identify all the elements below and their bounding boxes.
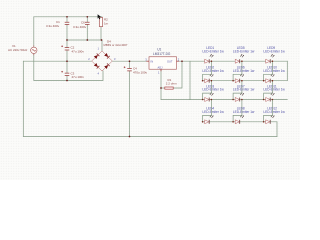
svg-text:ADJ: ADJ: [158, 65, 164, 69]
LED1: [202, 46, 224, 63]
wire ADJ column: [160, 71, 162, 100]
LED10: [263, 66, 285, 83]
wire C1 column: [66, 17, 68, 40]
junction dots: [66, 16, 183, 137]
capacitor C6: [85, 22, 90, 24]
bridge rectifier D4: [92, 51, 113, 71]
svg-text:MB6S or 4x1n4007: MB6S or 4x1n4007: [104, 43, 128, 47]
wire LED row2: [203, 80, 288, 82]
svg-text:LED-Emiter 1w: LED-Emiter 1w: [263, 49, 285, 53]
svg-text:LED-Emiter 1w: LED-Emiter 1w: [202, 110, 224, 114]
svg-text:3.3u 400v: 3.3u 400v: [46, 24, 60, 28]
wire C4 column: [129, 61, 131, 136]
op-amp U1 regulator LM317: [149, 57, 177, 69]
wire R1 left lead: [161, 87, 165, 89]
svg-text:LED-Emiter 1w: LED-Emiter 1w: [263, 88, 285, 92]
svg-text:LED-Emiter 1w: LED-Emiter 1w: [263, 69, 285, 73]
wire V1 bottom to bridge bottom: [34, 54, 103, 81]
diode D4 bottom-right: [104, 63, 110, 69]
LED5: [233, 46, 255, 63]
wire C6 column: [86, 17, 88, 40]
capacitor C3: [65, 73, 70, 75]
svg-text:LED-Emiter 1w: LED-Emiter 1w: [202, 88, 224, 92]
wire hook col2 row2-3: [232, 80, 242, 100]
wire bridge right to U1: [113, 60, 149, 62]
LED12: [263, 107, 285, 124]
capacitor C1: [65, 22, 70, 24]
wire R2 column: [100, 17, 102, 40]
resistor R2: [99, 18, 102, 27]
diode D4 bottom-left: [94, 63, 100, 69]
wire hook col3 row1-2: [263, 60, 273, 81]
svg-text:LED-Emiter 1w: LED-Emiter 1w: [233, 69, 255, 73]
svg-text:LED-Emiter 1w: LED-Emiter 1w: [233, 110, 255, 114]
LED3: [202, 84, 224, 101]
svg-text:3: 3: [114, 57, 116, 61]
diode D4 top-right: [104, 53, 110, 59]
LED6: [233, 66, 255, 83]
wire V1 top: [33, 17, 35, 47]
svg-text:LED-Emiter 1w: LED-Emiter 1w: [233, 49, 255, 53]
capacitor C4: [127, 69, 132, 71]
mouse cursor: [98, 14, 102, 19]
svg-text:LED-Emiter 1w: LED-Emiter 1w: [202, 69, 224, 73]
wire row4 to bottom rail: [276, 122, 278, 137]
svg-text:3.3u 400v: 3.3u 400v: [73, 25, 87, 29]
svg-text:47u 100v: 47u 100v: [72, 75, 85, 79]
wire bridge top stub: [101, 40, 103, 51]
wire top rail: [34, 16, 102, 18]
wire LED row4: [203, 121, 277, 123]
wire U1 out / LED row1: [177, 60, 288, 62]
svg-text:AC 220v 50Hz: AC 220v 50Hz: [8, 48, 28, 52]
resistor R1: [165, 87, 173, 89]
wire matrix right vertical: [286, 61, 288, 80]
wire out drop: [189, 61, 191, 99]
wire hook col2 row1-2: [232, 60, 242, 81]
LED8: [233, 107, 255, 124]
capacitor C2: [65, 48, 70, 50]
wire hook col3 row3-4: [263, 99, 273, 123]
svg-text:LM317T-DG: LM317T-DG: [153, 52, 171, 56]
wire hook col1 row2-3: [202, 80, 212, 100]
svg-text:1: 1: [98, 47, 100, 51]
LED11: [263, 84, 285, 101]
svg-text:1m: 1m: [104, 22, 109, 26]
svg-text:LED-Emiter 1w: LED-Emiter 1w: [263, 110, 285, 114]
LED9: [263, 46, 285, 63]
wire AC minus rail: [23, 60, 91, 62]
wire left drop: [22, 61, 24, 136]
svg-text:IN: IN: [151, 60, 154, 64]
wire ADJ to row3 feed: [161, 99, 190, 101]
LED4: [202, 107, 224, 124]
diode D4 top-left: [94, 53, 100, 59]
LED2: [202, 66, 224, 83]
svg-text:3: 3: [145, 57, 147, 61]
wire bottom rail: [23, 136, 277, 138]
voltage source V1: [31, 45, 37, 55]
wire LED row3: [190, 99, 287, 101]
wire C2 column: [66, 40, 68, 61]
wire hook col1 row3-4: [202, 99, 212, 123]
wire hook col3 row2-3: [263, 80, 273, 100]
svg-text:LED-Emiter 1w: LED-Emiter 1w: [233, 88, 255, 92]
svg-text:2.2 ohm: 2.2 ohm: [166, 81, 177, 85]
wire hook col1 row1-2: [202, 60, 212, 81]
wire hook col2 row3-4: [232, 99, 242, 123]
wire mid rail: [67, 39, 102, 41]
svg-text:2: 2: [88, 57, 90, 61]
svg-text:4: 4: [98, 72, 100, 76]
wire C3 column: [66, 61, 68, 80]
svg-text:47u 100v: 47u 100v: [72, 50, 85, 54]
svg-text:OUT: OUT: [167, 60, 173, 64]
svg-text:LED-Emiter 1w: LED-Emiter 1w: [202, 49, 224, 53]
svg-text:1: 1: [158, 71, 160, 75]
svg-text:470u 100v: 470u 100v: [133, 70, 148, 74]
svg-text:2: 2: [178, 57, 180, 61]
LED7: [233, 84, 255, 101]
wire R1 right tap: [173, 61, 182, 88]
